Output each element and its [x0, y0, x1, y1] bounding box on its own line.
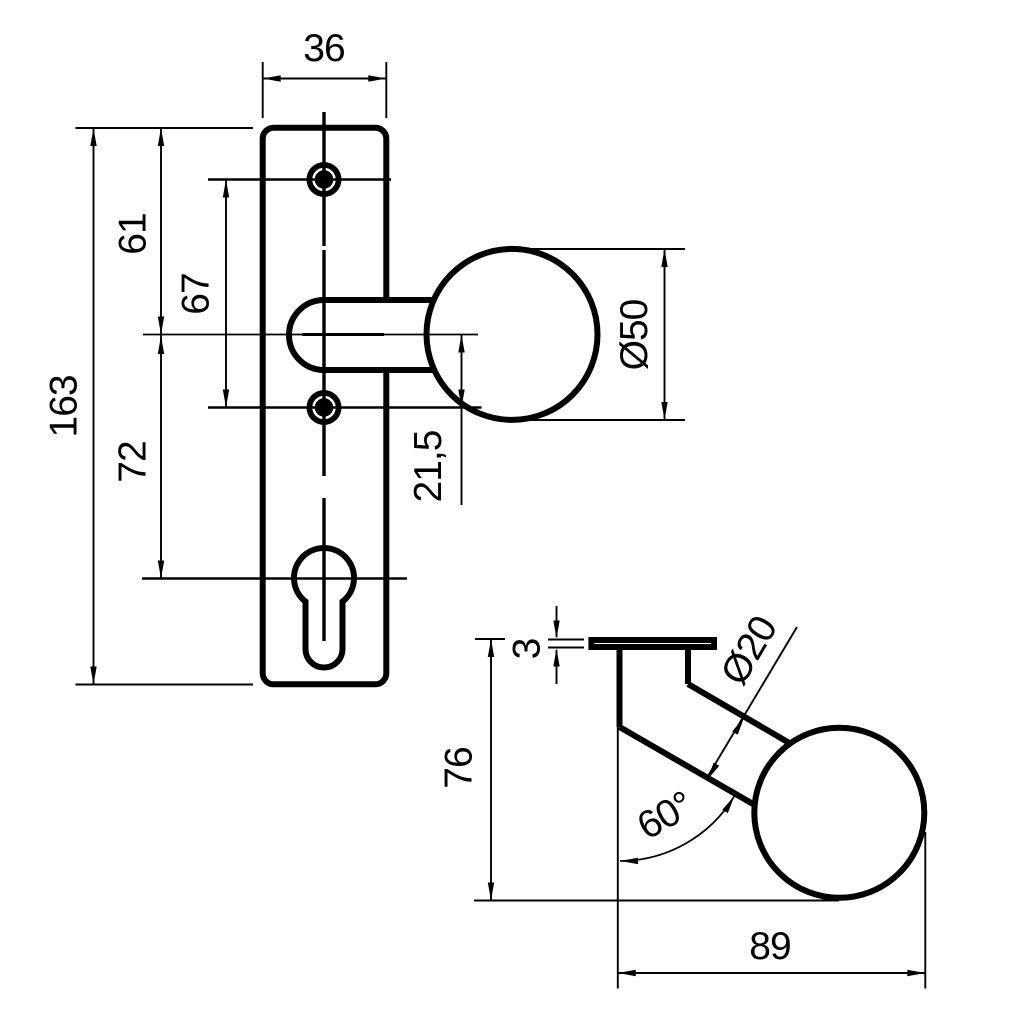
bracket lower neck edge: [620, 727, 754, 804]
flange plate (side view): [591, 640, 714, 647]
svg-text:72: 72: [112, 441, 155, 482]
dim 61 line: [160, 128, 162, 335]
dim 163 line: [93, 128, 95, 685]
dim 36 extension lines: [262, 62, 264, 118]
plate vertical centerline: [322, 112, 325, 246]
dim Ø50 extension lines: [512, 248, 685, 250]
bracket right edge: [685, 650, 691, 684]
dim 36 line: [263, 78, 387, 80]
euro profile keyhole: [294, 548, 354, 668]
svg-text:61: 61: [112, 213, 155, 254]
svg-text:60°: 60°: [630, 783, 700, 848]
knob ball (front view, Ø50): [427, 249, 598, 420]
svg-text:89: 89: [749, 925, 790, 968]
dim 89 extension lines: [617, 727, 619, 989]
dim Ø50 line: [664, 249, 666, 420]
svg-text:163: 163: [43, 375, 86, 437]
svg-text:67: 67: [175, 273, 218, 314]
lower screw hole centerline: [208, 406, 482, 409]
bracket upper neck edge: [688, 684, 789, 743]
backplate (front view): [263, 128, 387, 685]
dim 89 line: [618, 972, 926, 974]
dim 21,5 line: [461, 335, 463, 506]
dim 60 degree arc: [620, 796, 734, 861]
upper screw hole: [307, 162, 342, 197]
dim 72 line: [160, 335, 162, 579]
dim 76 line: [490, 639, 492, 901]
keyhole centerline: [142, 577, 407, 580]
svg-text:Ø20: Ø20: [713, 609, 786, 692]
dim 76 extension lines: [475, 638, 505, 640]
dim 67 line: [225, 180, 227, 408]
svg-text:Ø50: Ø50: [613, 299, 656, 370]
ball knob (side view): [754, 728, 924, 898]
lower screw hole: [307, 390, 342, 425]
svg-text:3: 3: [505, 639, 548, 660]
dim 3 arrows: [556, 606, 558, 637]
dim Ø20 line: [708, 627, 797, 776]
svg-text:76: 76: [437, 747, 480, 788]
knob horizontal centerline: [143, 334, 478, 336]
dim 163 extension lines: [76, 127, 254, 129]
svg-text:21,5: 21,5: [407, 430, 450, 502]
knob neck (front view): [289, 300, 437, 370]
svg-text:36: 36: [303, 27, 344, 70]
bracket left edge: [617, 650, 623, 727]
dim 3 extension lines: [548, 639, 584, 641]
upper screw hole centerline: [208, 178, 391, 181]
